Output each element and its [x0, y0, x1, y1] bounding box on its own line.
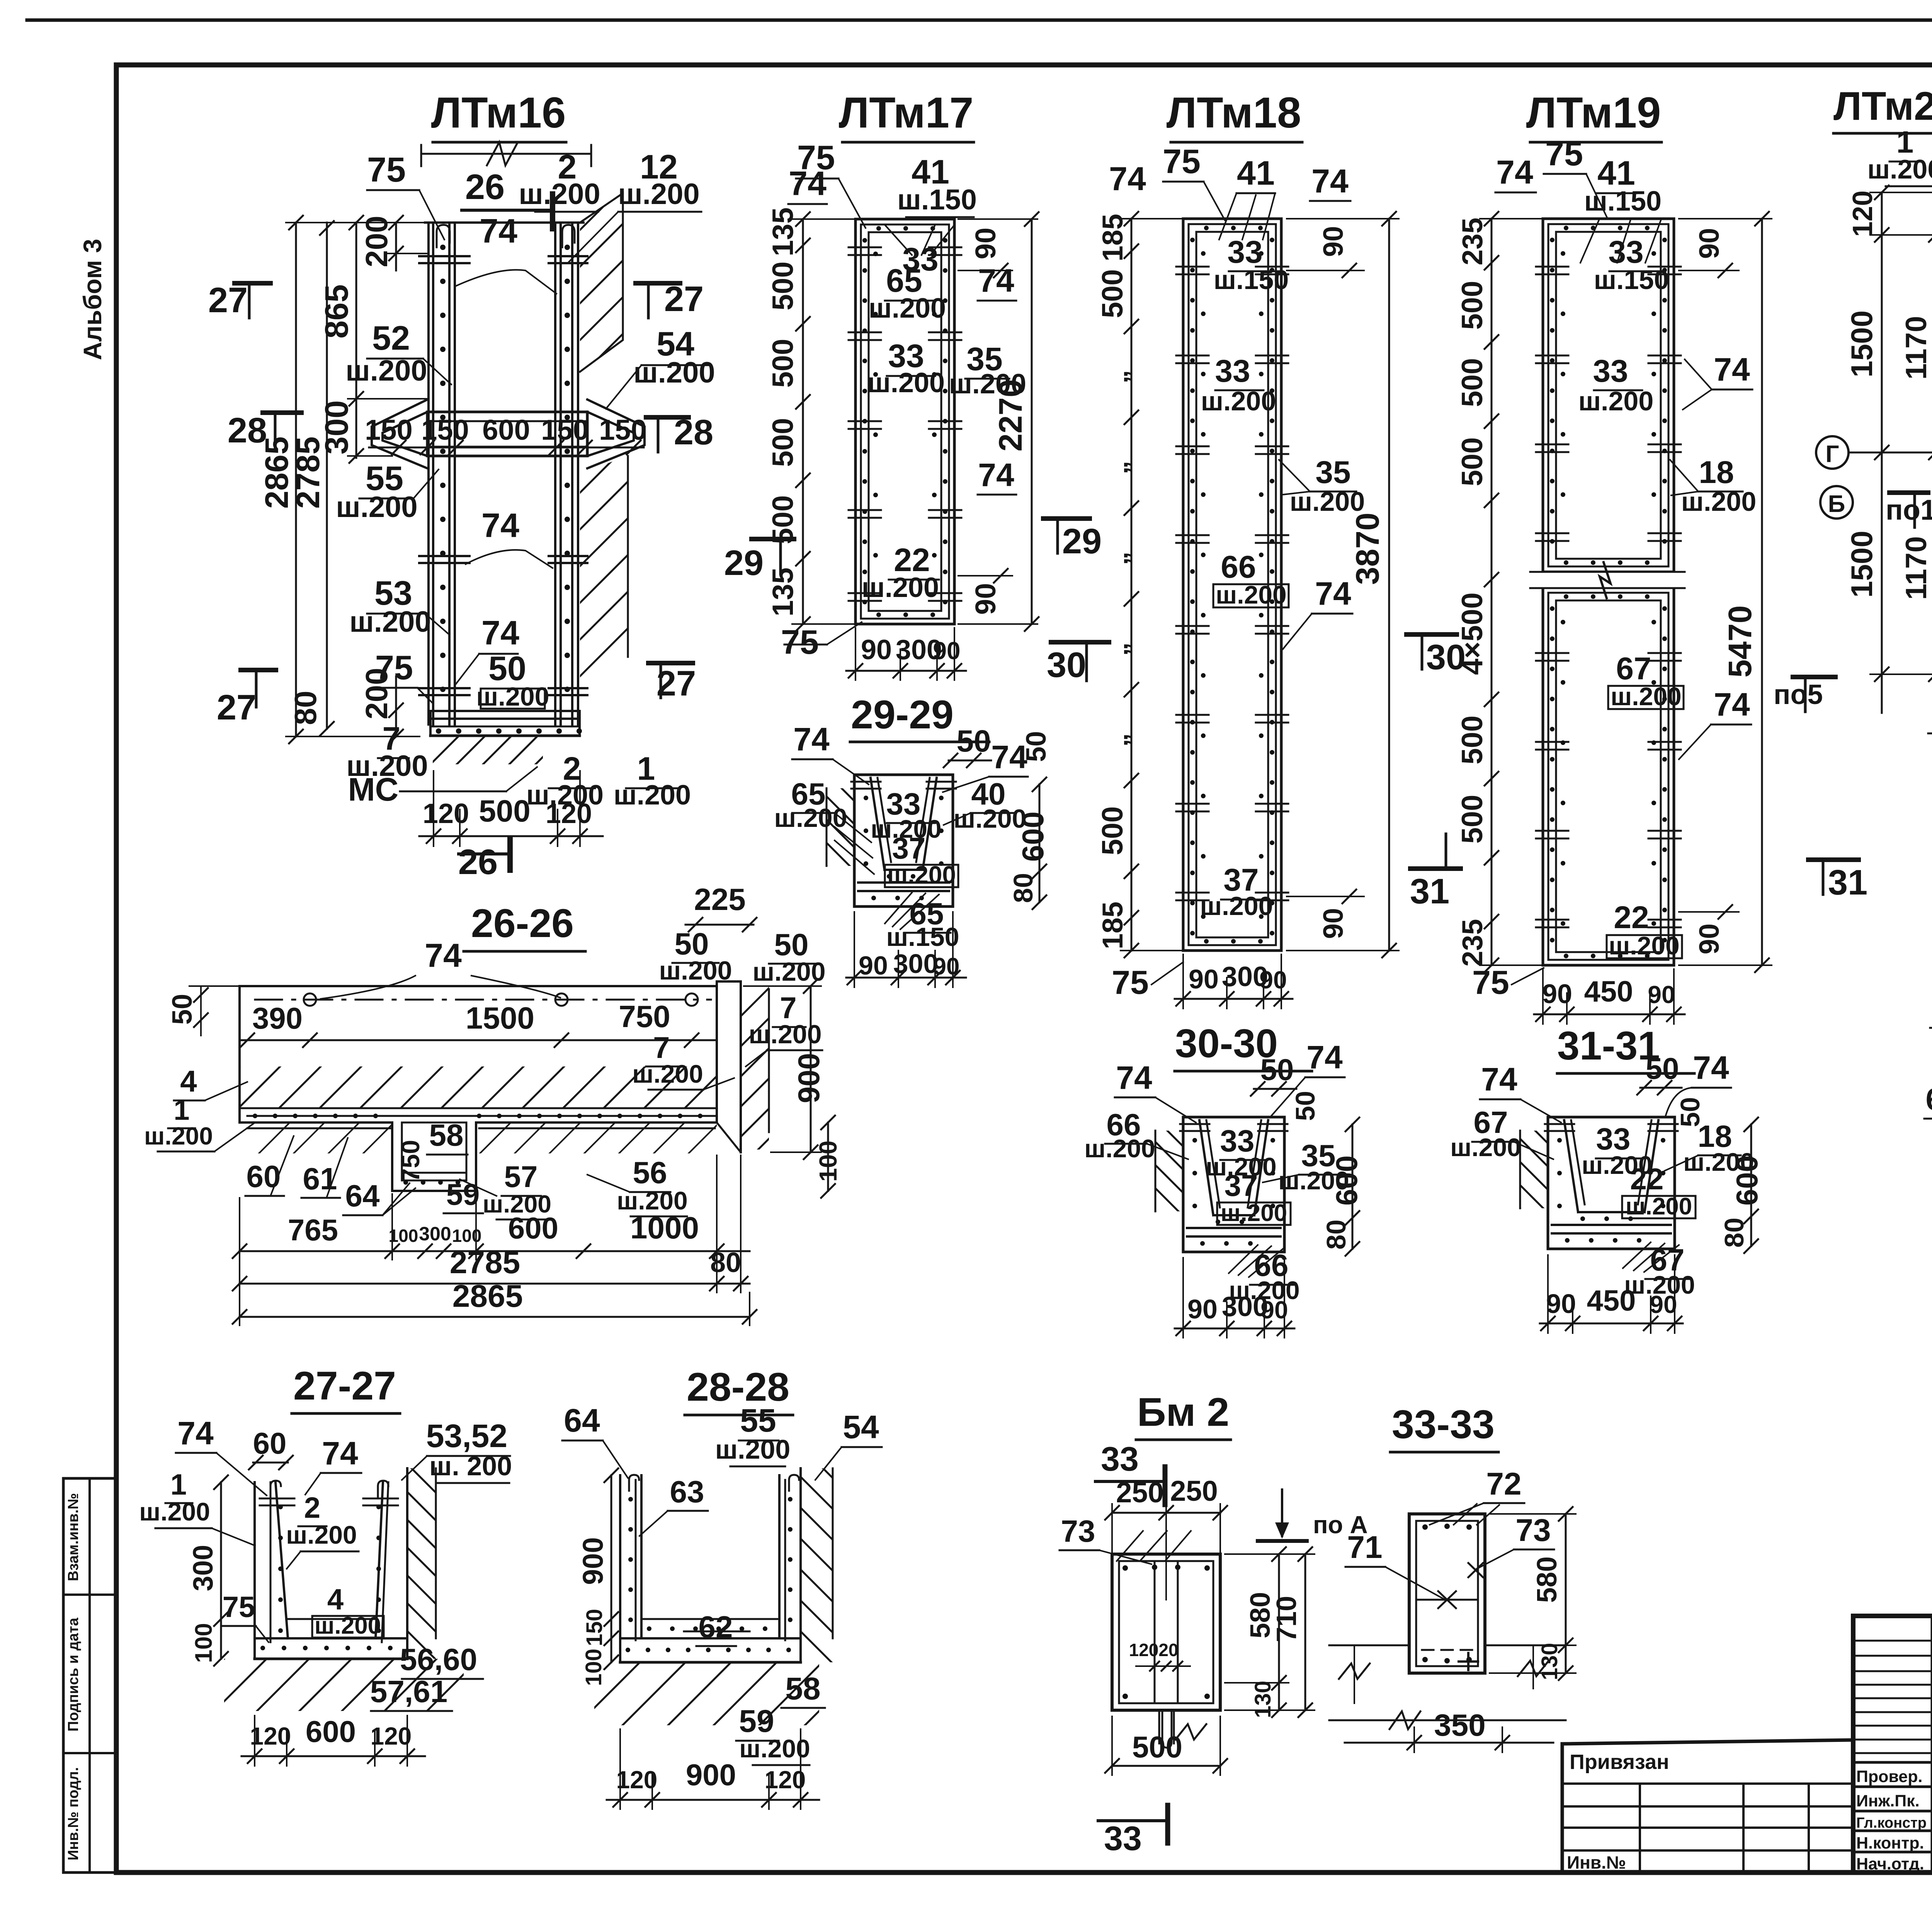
- svg-text:74: 74: [177, 1415, 214, 1451]
- svg-text:73: 73: [1061, 1514, 1095, 1548]
- 26-26 left dims: [144, 986, 717, 1151]
- svg-text:100: 100: [190, 1623, 217, 1663]
- 31-31 channel: [1442, 1117, 1678, 1249]
- svg-text:74: 74: [1693, 1049, 1729, 1086]
- 27-27 channel: [255, 1468, 407, 1659]
- svg-text:90: 90: [1546, 1289, 1576, 1319]
- svg-text:ЛТм17: ЛТм17: [839, 88, 974, 137]
- svg-text:ш.200: ш.200: [286, 1520, 357, 1549]
- svg-text:130: 130: [1537, 1643, 1562, 1680]
- svg-text:75: 75: [367, 151, 406, 189]
- svg-text:450: 450: [1584, 975, 1633, 1008]
- svg-text:ш.150: ш.150: [897, 184, 977, 216]
- svg-text:ш.200: ш.200: [1450, 1133, 1521, 1162]
- svg-text:90: 90: [1650, 1291, 1677, 1318]
- 26-26 lower labels: [245, 1118, 688, 1219]
- svg-text:74: 74: [481, 614, 519, 652]
- Bm1 leader labels 70 69: [1924, 992, 1932, 1119]
- svg-text:58: 58: [785, 1671, 820, 1706]
- Bm2 section mark 33 bottom: [1098, 1805, 1168, 1857]
- svg-text:120: 120: [371, 1722, 412, 1750]
- svg-text:750: 750: [396, 1140, 425, 1182]
- svg-text:250: 250: [1116, 1476, 1163, 1509]
- svg-text:350: 350: [1434, 1708, 1485, 1742]
- LTm16 tie bars 74: [419, 256, 587, 695]
- section mark 31 left of LTm19: [1410, 834, 1461, 911]
- svg-text:Бм 2: Бм 2: [1137, 1390, 1229, 1435]
- svg-text:35: 35: [1315, 455, 1350, 490]
- title 27-27: [292, 1364, 400, 1413]
- LTm16 labels top: [367, 148, 701, 294]
- svg-text:ш.200: ш.200: [715, 1434, 791, 1464]
- svg-text:600: 600: [1016, 811, 1050, 862]
- svg-text:ш.200: ш.200: [633, 356, 715, 389]
- svg-text:74: 74: [1714, 351, 1750, 388]
- 33-33 side break lines: [1329, 1645, 1566, 1703]
- svg-text:250: 250: [1170, 1475, 1218, 1507]
- LTm19 column upper part: [1536, 219, 1681, 572]
- svg-text:130: 130: [1250, 1681, 1276, 1718]
- svg-text:74: 74: [1116, 1060, 1152, 1096]
- svg-text:90: 90: [1260, 1296, 1288, 1324]
- svg-text:„: „: [1103, 733, 1133, 747]
- svg-text:41: 41: [1237, 154, 1275, 192]
- LTm18 bottom dims: [1175, 954, 1293, 1009]
- svg-text:120: 120: [546, 798, 592, 829]
- svg-text:75: 75: [1545, 134, 1583, 173]
- svg-text:4: 4: [327, 1583, 344, 1616]
- svg-text:600: 600: [482, 414, 530, 446]
- section mark 31 right: [1808, 860, 1867, 902]
- svg-text:150: 150: [582, 1609, 607, 1646]
- svg-text:29-29: 29-29: [851, 692, 954, 737]
- svg-text:ш.200: ш.200: [618, 178, 699, 211]
- svg-text:ш. 200: ш. 200: [429, 1451, 512, 1481]
- title LTm16: [431, 88, 566, 142]
- svg-text:300: 300: [188, 1545, 219, 1591]
- svg-text:765: 765: [288, 1213, 338, 1247]
- svg-text:54: 54: [843, 1409, 879, 1445]
- svg-text:53,52: 53,52: [426, 1418, 507, 1454]
- Bm2 inner dims 1 20 20: [1129, 1640, 1190, 1671]
- title LTm21 LTm22: [1833, 84, 1932, 133]
- title 30-30: [1175, 1021, 1312, 1071]
- 31-31 labels: [1450, 1049, 1764, 1299]
- Bm2 top dims: [1105, 1475, 1227, 1600]
- 28-28 bottom dims: [607, 1729, 819, 1809]
- section mark 29 right: [1043, 519, 1102, 561]
- svg-text:50: 50: [957, 724, 991, 758]
- svg-text:Инв.№ подл.: Инв.№ подл.: [65, 1767, 82, 1861]
- LTm16 section mark 26 top: [462, 167, 553, 229]
- svg-text:580: 580: [1532, 1556, 1563, 1603]
- svg-text:90: 90: [1542, 979, 1572, 1009]
- LTm21 po marks: [1886, 474, 1932, 693]
- LTm19 right dimension 5470: [1679, 212, 1772, 972]
- LTm21 bottom break and stubs: [1928, 697, 1932, 798]
- svg-text:„: „: [1103, 370, 1133, 384]
- 26-26 top labels: [321, 882, 826, 1090]
- Bm2 bottom hooks: [1159, 1710, 1174, 1748]
- left margin stamp boxes: [63, 1478, 116, 1872]
- svg-text:по5: по5: [1774, 679, 1823, 710]
- LTm19 bottom dims: [1534, 969, 1685, 1024]
- LTm16 rebar dots: [440, 245, 570, 692]
- 33-33 right dims: [1490, 1507, 1576, 1680]
- title LTm19: [1526, 88, 1662, 142]
- svg-text:235: 235: [1456, 218, 1488, 265]
- svg-text:27: 27: [217, 688, 256, 727]
- svg-text:Привязан: Привязан: [1570, 1750, 1669, 1774]
- section mark 29 left: [724, 539, 794, 583]
- svg-text:56: 56: [633, 1155, 667, 1190]
- svg-text:31: 31: [1828, 863, 1867, 902]
- svg-text:74: 74: [1306, 1039, 1343, 1075]
- svg-text:865: 865: [318, 284, 355, 338]
- svg-text:75: 75: [1112, 964, 1149, 1001]
- svg-text:90: 90: [969, 583, 1002, 615]
- svg-text:Нач.отд.: Нач.отд.: [1856, 1855, 1924, 1873]
- svg-text:390: 390: [252, 1001, 303, 1035]
- svg-text:ЛТм18: ЛТм18: [1167, 88, 1301, 137]
- svg-text:500: 500: [767, 262, 799, 311]
- svg-text:ш.150: ш.150: [1584, 186, 1662, 217]
- svg-text:27: 27: [664, 279, 704, 319]
- svg-text:ш.200: ш.200: [519, 178, 600, 211]
- svg-text:Инж.Пк.: Инж.Пк.: [1856, 1792, 1920, 1810]
- svg-text:225: 225: [694, 882, 745, 917]
- svg-text:„: „: [1103, 643, 1133, 656]
- svg-text:80: 80: [1008, 873, 1038, 903]
- svg-text:74: 74: [1481, 1061, 1517, 1097]
- svg-text:ш.200: ш.200: [1216, 580, 1286, 609]
- svg-text:„: „: [1103, 461, 1133, 474]
- svg-text:600: 600: [1330, 1155, 1364, 1206]
- svg-text:900: 900: [792, 1053, 826, 1103]
- svg-text:62: 62: [699, 1610, 733, 1644]
- title 26-26: [464, 901, 585, 951]
- svg-text:ш.150: ш.150: [1214, 265, 1289, 295]
- svg-text:74: 74: [978, 262, 1014, 299]
- LTm16 section marks 27 28: [208, 279, 713, 727]
- svg-text:74: 74: [789, 164, 827, 202]
- Bm2 section mark 33 top: [1095, 1440, 1165, 1505]
- svg-text:120: 120: [1129, 1640, 1159, 1660]
- LTm17 column: [849, 219, 961, 624]
- svg-text:ш.200: ш.200: [336, 491, 417, 524]
- LTm16 labels lower: [346, 506, 691, 811]
- svg-text:ш.200: ш.200: [949, 369, 1026, 400]
- svg-text:2785: 2785: [450, 1245, 520, 1280]
- LTm19 labels: [1472, 134, 1756, 1001]
- svg-text:500: 500: [767, 339, 799, 388]
- section mark 30 far right: [1406, 634, 1466, 677]
- svg-text:57: 57: [504, 1160, 538, 1194]
- svg-text:90: 90: [933, 637, 960, 665]
- svg-text:60: 60: [247, 1159, 281, 1194]
- svg-text:75: 75: [1472, 964, 1509, 1001]
- 28-28 labels: [562, 1402, 882, 1765]
- svg-text:600: 600: [1730, 1155, 1764, 1206]
- svg-text:2: 2: [304, 1492, 320, 1524]
- svg-text:37: 37: [1225, 1168, 1258, 1202]
- svg-text:90: 90: [1318, 226, 1349, 257]
- 26-26 ground hatch: [224, 1122, 754, 1153]
- svg-text:18: 18: [1699, 455, 1734, 490]
- svg-text:300: 300: [893, 949, 939, 979]
- title 28-28: [685, 1365, 793, 1415]
- 28-28 right hatch: [607, 1468, 1048, 1662]
- svg-text:27: 27: [656, 664, 696, 703]
- svg-text:90: 90: [1259, 966, 1287, 994]
- svg-text:100: 100: [389, 1226, 418, 1246]
- svg-text:74: 74: [978, 457, 1014, 493]
- LTm21 left dims: [1845, 185, 1932, 713]
- svg-text:90: 90: [1189, 964, 1219, 994]
- svg-text:ш.200: ш.200: [659, 956, 732, 985]
- svg-text:74: 74: [322, 1435, 358, 1471]
- svg-text:Гл.констр: Гл.констр: [1856, 1815, 1927, 1831]
- svg-text:ЛТм19: ЛТм19: [1526, 88, 1661, 137]
- svg-text:500: 500: [767, 418, 799, 467]
- LTm17 left dimension chain: [767, 207, 855, 631]
- 26-26 slab outline: [240, 981, 741, 1191]
- svg-text:74: 74: [1109, 160, 1146, 197]
- svg-text:22: 22: [1630, 1162, 1664, 1196]
- svg-text:59: 59: [739, 1704, 774, 1739]
- svg-text:150: 150: [541, 414, 588, 446]
- svg-text:ш.200: ш.200: [1084, 1134, 1155, 1163]
- 26-26 right dims: [744, 979, 842, 1198]
- svg-text:900: 900: [577, 1537, 609, 1585]
- svg-text:ш.200: ш.200: [315, 1612, 381, 1639]
- svg-text:ш.200: ш.200: [614, 780, 691, 811]
- svg-text:Взам.инв.№: Взам.инв.№: [65, 1493, 82, 1581]
- svg-text:80: 80: [1321, 1219, 1351, 1250]
- svg-text:20: 20: [1158, 1640, 1178, 1660]
- title 29-29: [850, 692, 989, 742]
- svg-text:900: 900: [686, 1758, 736, 1792]
- svg-text:90: 90: [859, 951, 888, 980]
- svg-text:33: 33: [1104, 1819, 1142, 1857]
- svg-text:600: 600: [508, 1211, 558, 1245]
- svg-text:135: 135: [767, 568, 799, 617]
- 30-30 labels: [1084, 1039, 1364, 1304]
- 26-26 bottom dim rows: [233, 1155, 757, 1325]
- title 31-31: [1557, 1024, 1694, 1073]
- privyazan box: [1562, 1740, 1853, 1872]
- svg-text:ш.200: ш.200: [869, 293, 946, 324]
- LTm17 bottom dims: [846, 628, 966, 680]
- svg-text:710: 710: [1271, 1596, 1302, 1642]
- svg-text:ш.200: ш.200: [1867, 154, 1932, 184]
- svg-text:ш.200: ш.200: [1200, 891, 1273, 921]
- svg-text:50: 50: [774, 927, 809, 962]
- svg-text:ш.200: ш.200: [345, 354, 427, 387]
- LTm16 bottom slab: [430, 711, 582, 736]
- svg-text:67: 67: [1616, 651, 1651, 686]
- 27-27 ground hatch: [172, 1659, 522, 1711]
- LTm16 column walls: [425, 223, 583, 724]
- title LTm17: [839, 88, 974, 142]
- svg-text:600: 600: [306, 1714, 356, 1748]
- svg-text:90: 90: [861, 634, 892, 665]
- svg-text:30: 30: [1047, 645, 1086, 685]
- svg-text:69: 69: [1926, 1082, 1932, 1116]
- svg-text:3870: 3870: [1349, 513, 1386, 585]
- svg-text:55: 55: [740, 1402, 776, 1439]
- LTm17 labels: [781, 138, 1026, 661]
- LTm18 left dimension chain: [1096, 212, 1183, 957]
- svg-text:ЛТм16: ЛТм16: [431, 88, 566, 137]
- LTm16 wall hatch lower right: [349, 456, 874, 687]
- svg-text:ш.200: ш.200: [887, 861, 956, 889]
- title block signature grid: [1853, 1616, 1932, 1872]
- title LTm18: [1167, 88, 1302, 142]
- LTm16 ground hatch under slab: [404, 736, 590, 764]
- svg-text:500: 500: [1132, 1730, 1182, 1764]
- 29-29 labels: [774, 721, 1052, 952]
- LTm18 labels: [1109, 142, 1365, 1001]
- Bm2 box: [1112, 1554, 1220, 1710]
- title Bm2: [1136, 1390, 1231, 1440]
- svg-text:27-27: 27-27: [293, 1364, 396, 1408]
- svg-text:74: 74: [1714, 686, 1750, 723]
- svg-text:ЛТм21; ЛТм22: ЛТм21; ЛТм22: [1833, 84, 1932, 129]
- svg-text:71: 71: [1347, 1530, 1382, 1565]
- svg-text:37: 37: [892, 831, 926, 865]
- svg-text:500: 500: [1456, 281, 1489, 330]
- LTm18 right dimension 3870: [1287, 212, 1399, 957]
- LTm19 left dimension chain: [1456, 212, 1543, 972]
- svg-text:100: 100: [452, 1226, 482, 1246]
- svg-text:29: 29: [724, 543, 764, 583]
- svg-text:ш.150: ш.150: [886, 922, 959, 952]
- svg-text:1000: 1000: [630, 1211, 699, 1245]
- LTm19 break mark: [1530, 562, 1685, 598]
- svg-text:300: 300: [419, 1223, 451, 1245]
- svg-text:22: 22: [1614, 900, 1649, 935]
- LTm21 labels: [1867, 119, 1932, 714]
- LTm18 column: [1176, 219, 1288, 951]
- sheet top edge line: [27, 19, 1932, 22]
- svg-text:ш.150: ш.150: [1594, 265, 1669, 295]
- svg-text:90: 90: [1648, 981, 1675, 1009]
- svg-text:80: 80: [288, 691, 323, 725]
- svg-text:500: 500: [1456, 795, 1489, 844]
- svg-text:120: 120: [765, 1766, 806, 1794]
- svg-text:52: 52: [372, 319, 410, 357]
- svg-text:75: 75: [1163, 142, 1201, 180]
- svg-text:500: 500: [1096, 269, 1129, 318]
- svg-text:1500: 1500: [1845, 310, 1879, 378]
- svg-text:ш.200: ш.200: [739, 1734, 810, 1763]
- album label: [78, 239, 107, 360]
- 26-26 wall hatch right: [577, 986, 952, 1150]
- svg-text:26-26: 26-26: [471, 901, 574, 946]
- svg-text:33: 33: [1101, 1440, 1139, 1478]
- svg-text:ш.200: ш.200: [862, 572, 939, 603]
- svg-text:185: 185: [1097, 214, 1129, 261]
- svg-text:63: 63: [670, 1475, 704, 1509]
- svg-text:33-33: 33-33: [1392, 1402, 1495, 1447]
- svg-text:ш.200: ш.200: [349, 605, 431, 638]
- svg-text:90: 90: [1187, 1294, 1218, 1324]
- svg-text:74: 74: [1496, 154, 1533, 191]
- svg-text:ш.200: ш.200: [1221, 1200, 1287, 1226]
- svg-text:56,60: 56,60: [400, 1642, 477, 1677]
- svg-text:ш.200: ш.200: [139, 1497, 210, 1526]
- LTm16 cross beam: [427, 412, 587, 456]
- 33-33 labels: [1345, 1466, 1554, 1600]
- svg-text:185: 185: [1097, 901, 1129, 949]
- svg-text:4×500: 4×500: [1456, 592, 1489, 675]
- svg-text:по1: по1: [1886, 494, 1932, 526]
- svg-text:26: 26: [458, 842, 498, 882]
- svg-text:33: 33: [1215, 354, 1250, 389]
- 30-30 bottom dims: [1175, 1258, 1294, 1338]
- svg-text:90: 90: [1694, 228, 1725, 259]
- svg-text:Инв.№: Инв.№: [1567, 1852, 1626, 1872]
- svg-text:1: 1: [173, 1094, 189, 1126]
- 31-31 bottom dims: [1540, 1255, 1683, 1333]
- svg-text:Б: Б: [1828, 491, 1845, 517]
- signature rows text: [1856, 1765, 1932, 1873]
- svg-text:50: 50: [1021, 731, 1052, 762]
- svg-text:57,61: 57,61: [370, 1674, 447, 1709]
- svg-text:МС: МС: [348, 771, 399, 808]
- section mark po5 right of LTm19: [1774, 677, 1835, 712]
- svg-text:64: 64: [345, 1179, 380, 1213]
- svg-text:500: 500: [1456, 716, 1489, 765]
- svg-text:120: 120: [423, 798, 469, 829]
- svg-text:100: 100: [581, 1649, 606, 1686]
- svg-text:1500: 1500: [466, 1001, 534, 1035]
- Bm2 bottom dim 500: [1105, 1716, 1227, 1775]
- svg-text:61: 61: [303, 1162, 337, 1196]
- svg-text:ш.200: ш.200: [1611, 682, 1681, 711]
- 27-27 bottom dims: [241, 1714, 425, 1766]
- svg-text:200: 200: [359, 216, 394, 267]
- svg-text:90: 90: [969, 228, 1002, 259]
- svg-text:26: 26: [465, 167, 505, 207]
- svg-text:300: 300: [318, 400, 355, 454]
- 27-27 labels: [139, 1415, 512, 1711]
- svg-text:Подпись и дата: Подпись и дата: [65, 1617, 82, 1731]
- svg-text:90: 90: [1694, 923, 1725, 954]
- svg-text:4: 4: [180, 1064, 197, 1098]
- LTm16 bottom dimension: [419, 771, 603, 846]
- svg-text:50: 50: [167, 994, 198, 1025]
- svg-text:1170: 1170: [1900, 316, 1932, 380]
- 30-30 channel: [1075, 1117, 1287, 1252]
- svg-text:74: 74: [793, 721, 830, 757]
- Bm2 label 73: [1060, 1514, 1191, 1564]
- 26-26 notch detail: [402, 1122, 466, 1185]
- svg-text:31: 31: [1410, 872, 1449, 911]
- LTm16 dimension chains left: [259, 216, 429, 743]
- svg-text:Провер.: Провер.: [1856, 1767, 1922, 1786]
- svg-text:50: 50: [1290, 1091, 1320, 1121]
- svg-text:75: 75: [375, 648, 413, 687]
- svg-text:27: 27: [208, 281, 248, 320]
- svg-text:28: 28: [674, 413, 713, 452]
- svg-text:500: 500: [1096, 806, 1129, 855]
- Bm2 right dims: [1225, 1547, 1315, 1718]
- svg-text:80: 80: [710, 1247, 741, 1278]
- section mark 30 right of LTm17: [1047, 642, 1109, 685]
- svg-text:ш.200: ш.200: [144, 1122, 213, 1150]
